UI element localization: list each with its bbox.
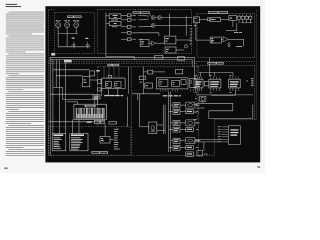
separator dashed A [49, 60, 257, 62]
wire stair 2 horizontal [209, 110, 233, 112]
wire LCD feed [104, 124, 106, 137]
jack J4 [127, 31, 131, 34]
chip RAM [115, 82, 121, 88]
wire J5 in [121, 38, 127, 40]
wire J1 out [131, 14, 132, 16]
block sub CPU [145, 83, 153, 88]
wire connector pin 1 [222, 126, 229, 128]
wire J5 out [131, 38, 132, 40]
wire feed 2b [169, 128, 173, 130]
wire row1 link [143, 14, 149, 17]
jack J5 [127, 38, 131, 41]
wire filter drop B [236, 23, 238, 31]
wire mem left down [101, 89, 103, 97]
mother board right [254, 66, 256, 120]
wire J1 in [121, 14, 127, 16]
block latch B [176, 69, 183, 74]
label J4 [133, 32, 136, 35]
optocoupler PC1 label [72, 37, 75, 40]
MIDI IN connector J1 [56, 19, 61, 22]
wire lower bus [58, 46, 90, 48]
block footswitch buffer [165, 47, 176, 53]
block bus ferrite [155, 56, 163, 60]
wire driver 1b out [180, 111, 186, 113]
wire into tune [106, 22, 109, 24]
keyboard keys [76, 108, 104, 118]
corner component label [51, 53, 55, 56]
transistor Q1 [71, 42, 75, 49]
block jack drive 1 [186, 110, 194, 114]
CPU edge label [96, 70, 99, 72]
wire J5 run [138, 38, 142, 40]
block battery [139, 76, 145, 80]
CPU and main board top [97, 66, 199, 68]
keyboard connector column [251, 78, 253, 86]
chip IC1 pins [195, 77, 201, 91]
wire chip3 feed [232, 73, 234, 77]
chip gate array [159, 80, 168, 87]
phones level label [234, 31, 242, 34]
wire drop to buffer [149, 14, 151, 16]
wire clock up [234, 90, 236, 95]
wire left cross B [63, 99, 98, 101]
block key assigner [83, 77, 90, 87]
wire into DAC [196, 39, 210, 41]
chip IC2 pins [210, 77, 219, 91]
op-amp A2 [223, 37, 228, 42]
block tone generator [210, 18, 220, 22]
wire left vertical 4 [64, 59, 66, 133]
wire DAC to amp [221, 38, 223, 40]
CPU bus labels [104, 95, 123, 96]
wire feed vertical B [170, 92, 172, 152]
wire clock feed [169, 14, 171, 37]
mother board left [196, 66, 198, 120]
wire row3 link [143, 25, 153, 28]
block CPU edge connector B [98, 88, 101, 91]
wire to op-amp [149, 42, 152, 44]
block tune [109, 22, 121, 26]
wire left cross A [53, 87, 63, 89]
chip PPI [172, 80, 180, 86]
volume pot VR1 [149, 122, 157, 134]
left page heading [6, 4, 18, 5]
wire J3 run [138, 26, 142, 28]
LSI block [156, 78, 188, 89]
wire feed vertical A [168, 92, 170, 152]
bus label [64, 60, 72, 63]
buffer B1 [151, 16, 155, 20]
sound board label [208, 11, 228, 13]
jack board outline [97, 10, 191, 54]
wire ROM down [108, 89, 110, 96]
wire J2 run [138, 19, 142, 21]
wire amp out drop [243, 39, 245, 46]
wire feed 3b [169, 147, 173, 149]
wire out row to pin6 [195, 138, 222, 140]
CPU board label [108, 64, 120, 66]
jack box PHONES [186, 138, 195, 144]
wire J2 in [121, 19, 127, 21]
block MIDI drive [140, 40, 149, 47]
block input filter [207, 18, 209, 21]
chip IC2 [209, 79, 221, 88]
wire feed vertical D [164, 105, 166, 134]
chip timer [181, 80, 186, 85]
label row 1 [196, 110, 198, 113]
wire centre bus [132, 93, 160, 95]
wire connector pin 3 [222, 131, 229, 133]
jack J3 [127, 25, 131, 28]
to-panel label [104, 94, 116, 97]
chip IC1 top label [195, 74, 197, 77]
wire feed 2a [171, 122, 173, 124]
jack board label [133, 12, 150, 14]
wire J4 run [138, 32, 142, 34]
mother left pin labels [193, 104, 196, 120]
wire driver 2b out [180, 128, 186, 130]
wire left drop A [62, 88, 64, 100]
wire chip1 feed [200, 73, 202, 77]
wire chip2 feed [214, 73, 216, 77]
wire connector pin 7 [222, 141, 229, 143]
wire driver 3b out [180, 147, 186, 149]
block driver 2b [173, 127, 180, 132]
switch list lines [53, 137, 61, 148]
wire centre drop [137, 94, 139, 100]
outer frame bottom [49, 154, 215, 156]
wire feed vertical [105, 13, 107, 26]
wire sound to mother [208, 58, 210, 66]
label J5 [133, 38, 136, 41]
block jack drive 3 [186, 146, 194, 150]
label J3 [133, 26, 136, 29]
block panel connector A [95, 120, 100, 124]
outer frame right [255, 10, 257, 120]
block DRAM [190, 79, 196, 88]
wire filter drop A [232, 20, 234, 26]
crystal X1 label [194, 24, 196, 27]
op-amp A1 [152, 41, 156, 45]
wire stair 3 vertical [252, 105, 254, 119]
wire J3 out [131, 26, 132, 28]
block bus buffer [204, 82, 209, 86]
block driver 1a [173, 103, 180, 108]
block AC inlet [197, 151, 203, 156]
wire mother bottom bus [197, 94, 253, 96]
buffer B3 [151, 23, 155, 27]
wire left vertical 2 [55, 59, 57, 87]
block clock gen [164, 36, 176, 44]
wire amp out [228, 38, 243, 40]
label J1 [133, 14, 136, 17]
block clock osc [109, 75, 112, 78]
chip IC3 pins [230, 77, 239, 91]
wire connector pin 5 [222, 136, 229, 138]
wire stair 3 horizontal [209, 117, 253, 119]
block digital sync [109, 14, 121, 19]
wire MIDI IN drop [57, 27, 59, 33]
wire CN1 down [195, 23, 197, 40]
wire node down [203, 142, 205, 151]
jack J2 [127, 18, 131, 21]
wire left vertical 1 [52, 59, 54, 133]
wire panel feed [49, 121, 104, 123]
jack box OUT R [186, 120, 195, 126]
wire bus drop B [191, 59, 193, 66]
wire RAM down [117, 89, 119, 96]
wire jack 3 to mother [195, 140, 199, 142]
wire to jack circle [185, 43, 187, 46]
mother board label [207, 62, 223, 64]
wire into chip1 [194, 66, 196, 80]
headphone label [236, 45, 242, 48]
wire driver 1a out [180, 104, 186, 106]
CPU board right [131, 67, 133, 155]
block LED strip [109, 122, 117, 124]
resistor array RA1 label [85, 37, 88, 40]
wire feed vertical C [162, 105, 164, 134]
wire left cross C [53, 69, 90, 71]
wire row3 run [135, 32, 159, 34]
wire pot out A [157, 124, 164, 126]
MIDI board outline [55, 13, 95, 54]
panel board outline [48, 127, 131, 155]
block LCD [100, 137, 110, 144]
label row 3 [196, 146, 198, 149]
wire MIDI THRU drop [75, 27, 77, 33]
wire keyscan up [96, 93, 98, 96]
keyboard assembly box [74, 104, 106, 119]
block driver 2a [173, 121, 180, 126]
chip IC1 bottom label [195, 91, 197, 94]
wire chip top bus [199, 72, 233, 74]
phone jack circles [228, 43, 230, 45]
left page body text [6, 12, 45, 156]
wire feed 3a [171, 140, 173, 142]
wire MIDI OUT drop [66, 27, 68, 46]
wire mid run [226, 30, 237, 32]
chip IC1 [194, 79, 203, 88]
panel board label [91, 151, 108, 153]
wire row2 to sound board [155, 24, 191, 26]
wire key assigner out [90, 79, 98, 81]
wire key gnd run [67, 101, 78, 103]
outer frame top stub [49, 9, 55, 11]
wire stair 1 horizontal [197, 102, 233, 104]
wire J3 in [121, 26, 127, 28]
jack board edge pin labels [190, 29, 193, 45]
block driver 1b [173, 109, 180, 114]
wire pot feed vertical [139, 94, 141, 127]
chip IC1 text [195, 81, 201, 87]
DAC block [210, 37, 221, 43]
jack label PHONES [196, 139, 200, 142]
wire main vertical [142, 67, 144, 94]
sound board outline [197, 14, 255, 58]
wire left stub [197, 107, 205, 109]
wire jack 2 to mother [195, 122, 199, 124]
wire crystal down [202, 102, 204, 104]
key scan text [94, 96, 99, 99]
wire feed 1b [169, 111, 173, 113]
page number 157 [257, 167, 260, 168]
block driver 3b [173, 145, 180, 150]
connector pin labels [218, 126, 221, 142]
wire clock run [211, 95, 235, 97]
MIDI board label [67, 16, 82, 18]
wire J4 out [131, 32, 132, 34]
transistor Q2 [86, 42, 90, 49]
block key scan connector [93, 95, 100, 99]
wire keyscan down A [94, 99, 96, 104]
main bus labels [163, 95, 181, 96]
jack label OUT R [196, 122, 199, 125]
wire keyscan down B [97, 99, 99, 104]
chip IC2 top label [210, 74, 212, 77]
wire bottom run [106, 56, 134, 58]
wire LCD out [110, 138, 114, 140]
wire right vertical feed [185, 16, 187, 36]
label row 2 [196, 128, 198, 131]
wire LSI to mother [196, 82, 199, 84]
wire stair 2 vertical [208, 111, 210, 119]
wire node to pin7 [204, 141, 222, 143]
schematic panel background [45, 6, 260, 162]
wire keyboard out A [71, 120, 73, 134]
button list lines [71, 137, 83, 149]
wire reset out [153, 71, 165, 73]
buffer B2 [158, 16, 162, 20]
wire key gnd [77, 102, 79, 104]
caption tune [112, 25, 117, 28]
wire left drop [57, 34, 59, 47]
block reset IC [148, 70, 153, 74]
caption sync [111, 19, 118, 22]
wire main bus lower [50, 58, 192, 60]
wire bottom corner [133, 57, 135, 60]
chip IC3 bottom label [229, 91, 231, 94]
keyboard bottom label [87, 121, 92, 123]
wire left to keyscan [50, 93, 93, 95]
wire row2 link [143, 18, 149, 21]
jack J6 circle [184, 45, 187, 48]
power supply label lines [230, 129, 238, 136]
separator dashed B [49, 63, 197, 65]
output filter network [238, 14, 253, 22]
wire out row to node [193, 141, 204, 143]
wire far left vertical [49, 57, 51, 155]
wire row3 drop [158, 33, 160, 36]
wire feed 1a [171, 104, 173, 106]
wire stair 1 vertical [232, 103, 234, 111]
memory block [102, 78, 125, 88]
block LPF [229, 16, 237, 21]
wire J4 in [121, 32, 127, 34]
wire J2 out [131, 19, 132, 21]
main board right [198, 67, 200, 155]
wire row1 to sound board [162, 17, 192, 19]
block CPU edge connector A [98, 80, 101, 84]
keyboard label strip [85, 105, 96, 107]
jack label OUT L [196, 104, 199, 107]
wire keyboard out B [78, 120, 80, 134]
wire into reset [143, 71, 147, 73]
power supply connector [228, 126, 240, 145]
wire CPU to panel [126, 97, 128, 127]
CPU board left [96, 67, 98, 127]
wire J1 run [138, 14, 142, 16]
wire CN1 to filter [199, 19, 207, 21]
wire connector pin 6 [222, 138, 229, 140]
block jack drive 2 [186, 128, 194, 132]
wire connector pin 2 [222, 129, 229, 131]
chip IC3 [229, 79, 241, 88]
panel signal list [114, 129, 120, 150]
wire main bus upper [50, 56, 195, 58]
block panel connector B [100, 120, 104, 124]
chip IC3 top label [229, 74, 231, 77]
wire clock out [176, 39, 192, 41]
memory pins [104, 77, 122, 79]
wire into chip2 [208, 66, 210, 77]
wire bus drop A [194, 57, 196, 65]
wire into key assigner [56, 75, 82, 77]
MIDI OUT connector J2 [64, 19, 69, 22]
wire into sync [106, 15, 109, 17]
label J2 [133, 19, 136, 22]
chip IC2 text [210, 81, 219, 87]
chip IC3 text [230, 81, 239, 87]
outer frame step horizontal [215, 119, 257, 121]
wire left vertical 3 [58, 59, 60, 133]
wire CPU right vertical [128, 67, 130, 94]
wire connector pin 4 [222, 133, 229, 135]
chip IC2 bottom label [210, 91, 212, 94]
LSI pins [161, 89, 196, 92]
jack box OUT L [186, 102, 195, 108]
block driver 3a [173, 138, 180, 143]
wire op-amp out [156, 42, 165, 44]
chip ROM [105, 82, 111, 88]
wire feed down [105, 26, 107, 57]
mother board top [197, 65, 255, 67]
memory feed stubs [104, 67, 119, 77]
button matrix box [70, 134, 88, 151]
wire foot out [176, 49, 184, 51]
block inverter [90, 71, 95, 76]
page number 156 [4, 168, 7, 169]
outer frame step vertical [214, 120, 216, 155]
outer frame left [48, 10, 50, 155]
wire pot feed horizontal [140, 126, 149, 128]
wire tone out [221, 19, 230, 21]
wire driver 3a out [180, 140, 186, 142]
wire pot out B [157, 129, 165, 131]
MIDI THRU connector J3 [73, 19, 79, 22]
block sound input connector [194, 17, 200, 23]
block power filter [186, 152, 194, 157]
wire MIDI horizontal bus [58, 33, 78, 35]
switch matrix box [52, 134, 66, 151]
crystal X2 [200, 96, 206, 101]
block latch A [178, 57, 185, 61]
jack J1 [127, 14, 131, 17]
wire jack 1 to mother [195, 104, 199, 106]
wire driver 2a out [180, 122, 186, 124]
